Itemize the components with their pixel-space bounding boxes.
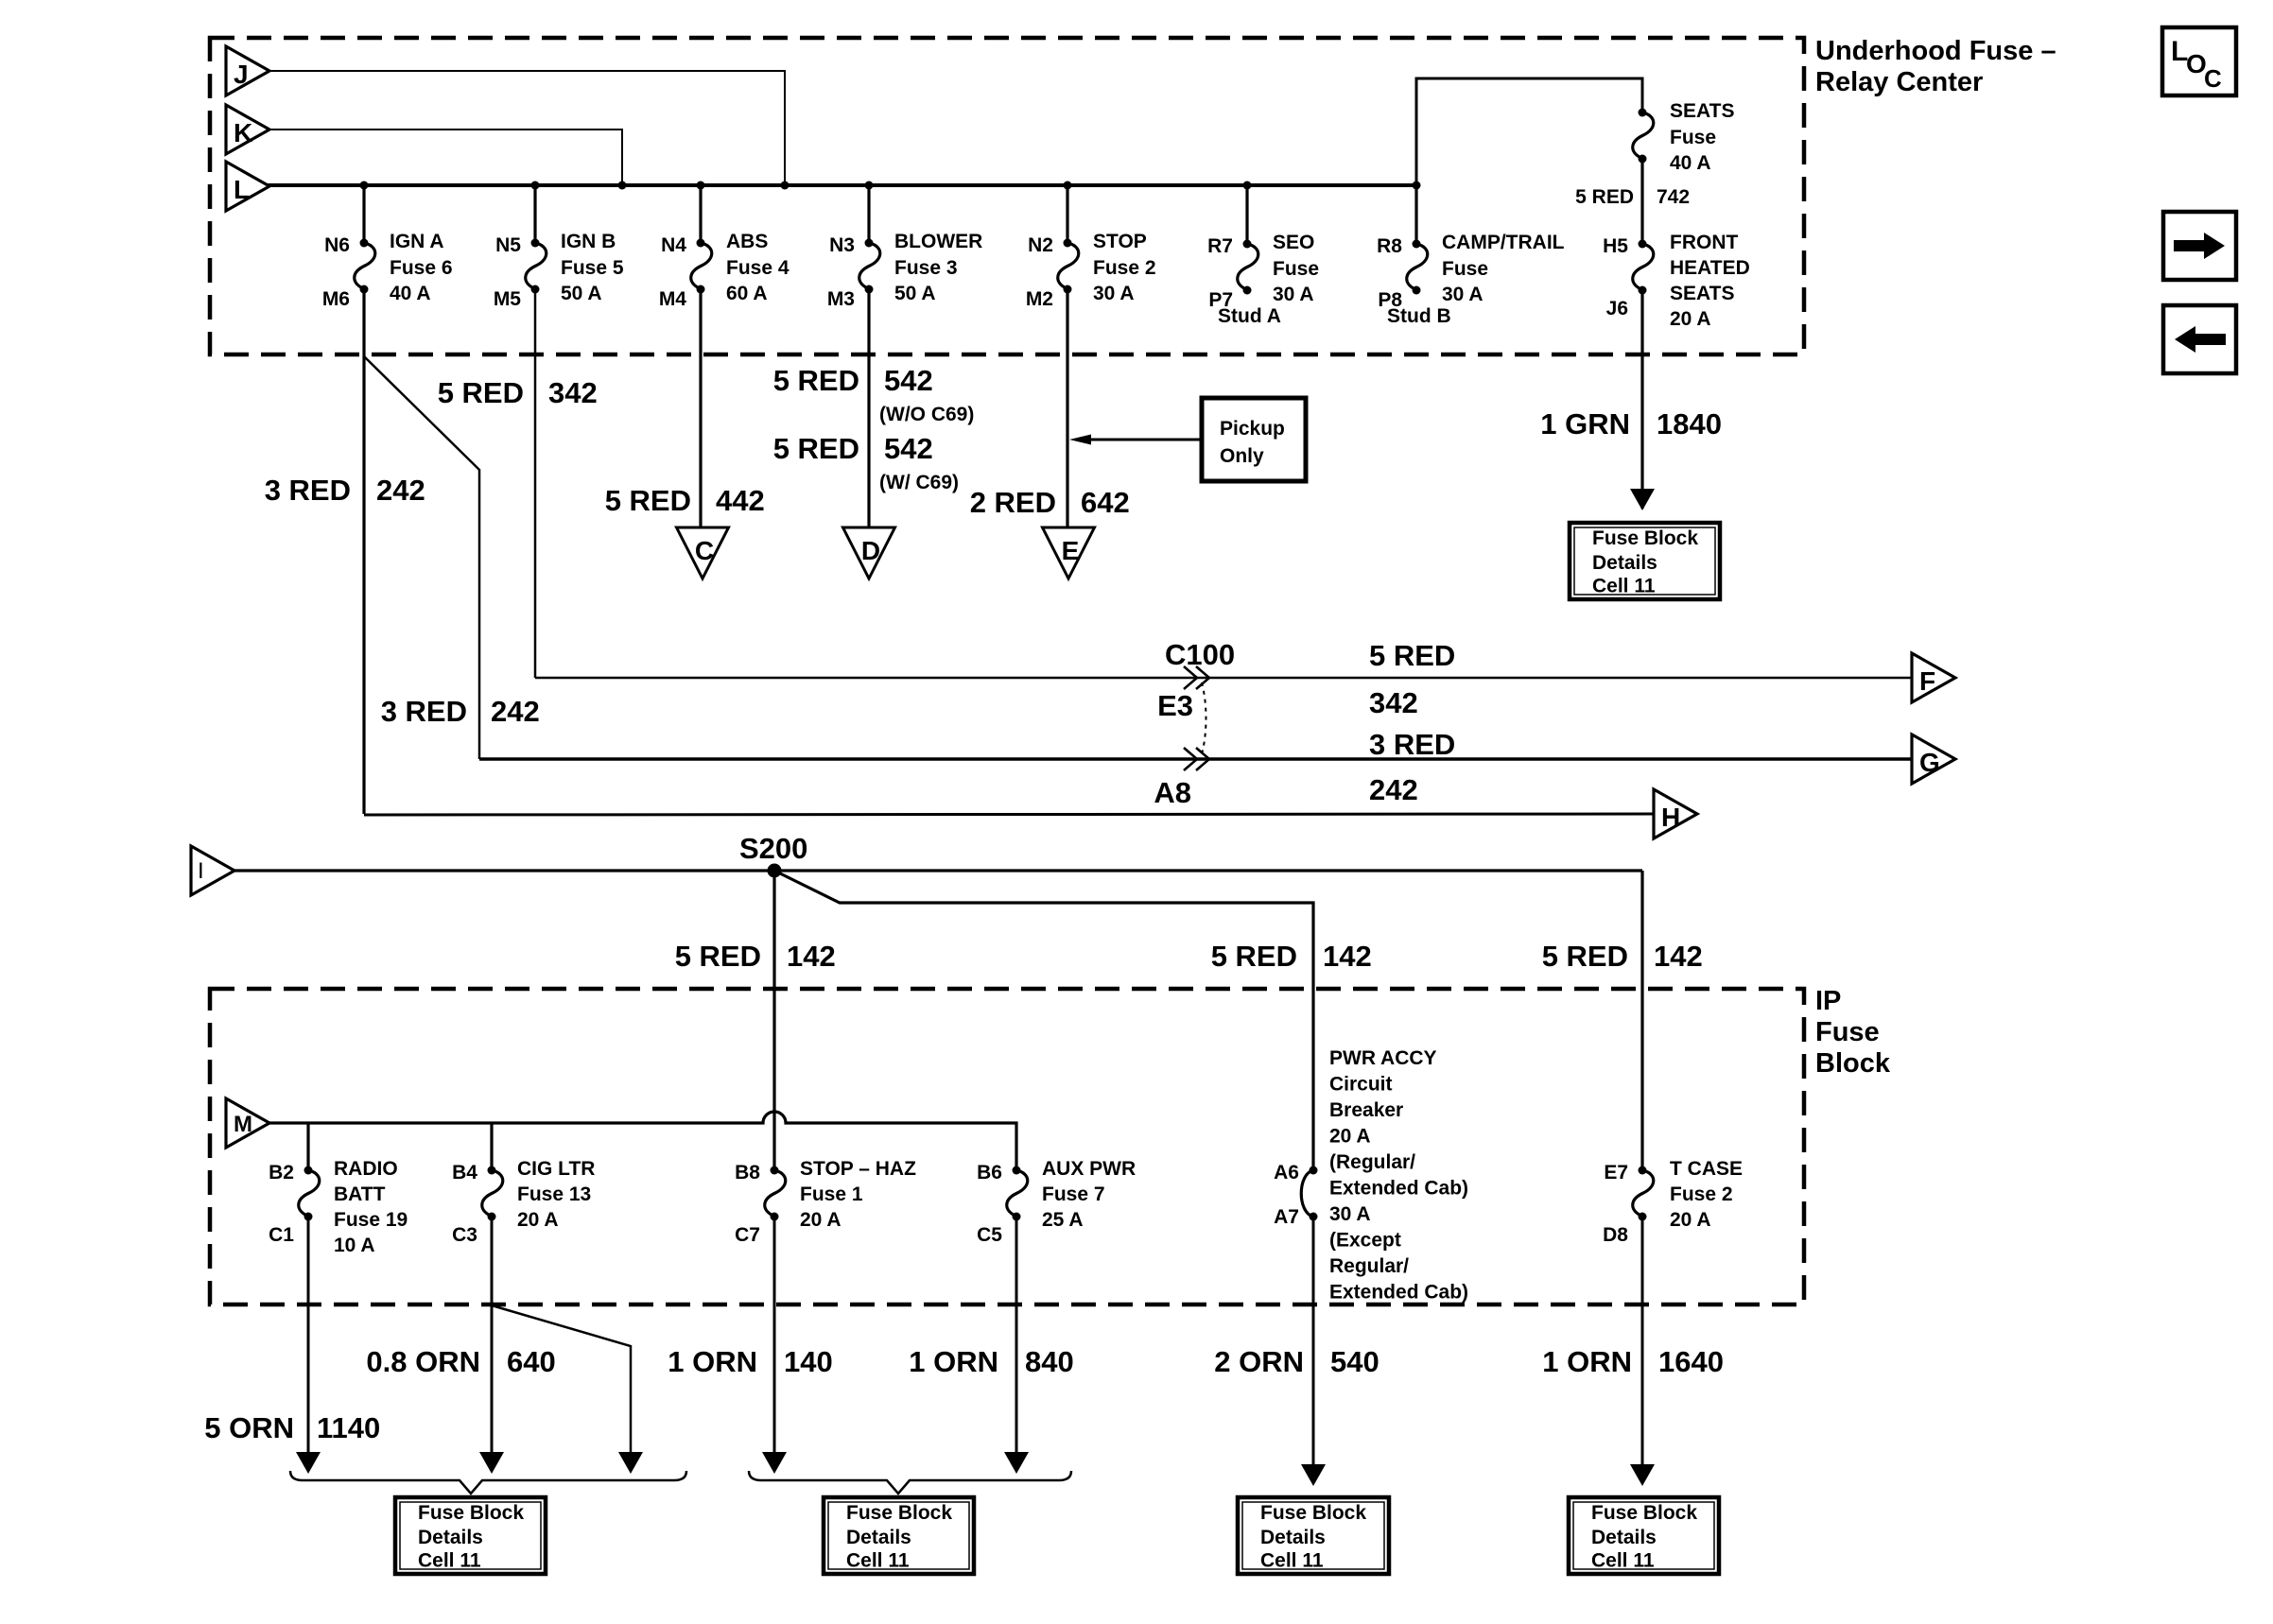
bus junction dots [360, 181, 369, 190]
Underhood Fuse-Relay Center dashed box [210, 38, 1804, 354]
svg-text:STOP: STOP [1093, 231, 1147, 252]
IP Fuse Block dashed box [210, 989, 1804, 1304]
wire H row [364, 814, 1654, 815]
svg-text:D: D [861, 536, 880, 565]
connector triangle K [226, 105, 269, 154]
svg-text:1 ORN: 1 ORN [1542, 1345, 1632, 1378]
fuse STOP-HAZ Fuse 1 [771, 1166, 779, 1175]
wire C7 down [773, 1217, 776, 1454]
svg-text:Fuse 7: Fuse 7 [1042, 1183, 1105, 1205]
svg-text:Only: Only [1220, 445, 1264, 467]
svg-text:5 RED: 5 RED [1211, 940, 1297, 973]
svg-text:C: C [695, 536, 714, 565]
svg-text:142: 142 [787, 940, 836, 973]
wire bus to B4 [490, 1123, 493, 1170]
svg-text:642: 642 [1081, 486, 1130, 519]
svg-text:M4: M4 [659, 288, 686, 310]
wire bus to N2 [1066, 185, 1068, 243]
svg-text:(Except: (Except [1329, 1230, 1401, 1252]
bus wire from M with hop over S200 wire [268, 1112, 1016, 1170]
svg-text:Circuit: Circuit [1329, 1074, 1393, 1096]
svg-text:1840: 1840 [1657, 407, 1722, 441]
svg-text:A8: A8 [1154, 776, 1191, 809]
svg-text:5 RED: 5 RED [675, 940, 761, 973]
svg-text:2 ORN: 2 ORN [1214, 1345, 1304, 1378]
left arrow icon box [2163, 305, 2236, 373]
svg-text:Fuse 2: Fuse 2 [1670, 1183, 1733, 1205]
wire D8 down [1641, 1217, 1644, 1466]
wire bus to B2 [306, 1123, 309, 1170]
svg-text:40 A: 40 A [1670, 152, 1711, 174]
svg-text:STOP – HAZ: STOP – HAZ [800, 1158, 916, 1180]
svg-text:PWR ACCY: PWR ACCY [1329, 1047, 1437, 1069]
svg-text:Fuse: Fuse [1670, 127, 1716, 148]
Fuse Block Details box 2 [824, 1497, 974, 1574]
svg-text:Fuse 4: Fuse 4 [726, 257, 789, 279]
svg-text:M6: M6 [322, 288, 350, 310]
svg-text:CIG LTR: CIG LTR [517, 1158, 595, 1180]
svg-text:Fuse Block: Fuse Block [1591, 1502, 1697, 1524]
wire S200 diagonal branch to PWR ACCY [774, 871, 1313, 1170]
svg-text:10 A: 10 A [334, 1235, 375, 1256]
svg-text:H: H [1661, 803, 1680, 832]
connector triangle H [1654, 789, 1697, 838]
svg-text:242: 242 [376, 474, 425, 507]
wire right branch down to E7 [1640, 871, 1643, 1170]
wire bus to R7 [1245, 185, 1248, 244]
svg-text:1140: 1140 [317, 1411, 380, 1444]
svg-text:L: L [234, 175, 250, 204]
svg-text:C3: C3 [452, 1224, 477, 1246]
Pickup Only box [1202, 398, 1306, 481]
svg-text:A7: A7 [1274, 1206, 1299, 1228]
svg-text:20 A: 20 A [1329, 1126, 1371, 1148]
svg-text:J: J [234, 60, 249, 89]
svg-text:Cell 11: Cell 11 [1260, 1550, 1324, 1572]
svg-text:FRONT: FRONT [1670, 232, 1738, 253]
svg-text:Cell 11: Cell 11 [1592, 576, 1656, 597]
svg-text:Extended Cab): Extended Cab) [1329, 1178, 1468, 1200]
svg-text:142: 142 [1654, 940, 1703, 973]
svg-text:Fuse: Fuse [1815, 1017, 1880, 1047]
Fuse Block Details box 1 [395, 1497, 546, 1574]
svg-text:Cell 11: Cell 11 [1591, 1550, 1655, 1572]
svg-text:30 A: 30 A [1093, 283, 1135, 304]
svg-text:R8: R8 [1377, 235, 1402, 257]
svg-text:Fuse 6: Fuse 6 [390, 257, 453, 279]
svg-text:Details: Details [1260, 1527, 1326, 1548]
svg-text:IGN A: IGN A [390, 231, 444, 252]
fuse SEATS 40A [1639, 109, 1647, 117]
svg-text:242: 242 [491, 695, 540, 728]
svg-text:Fuse 1: Fuse 1 [800, 1183, 863, 1205]
connector triangle C [677, 527, 729, 579]
svg-text:SEATS: SEATS [1670, 100, 1734, 122]
fuse RADIO BATT Fuse 19 [304, 1166, 313, 1175]
svg-text:3 RED: 3 RED [1369, 728, 1455, 761]
fuse SEO 30A [1243, 240, 1252, 249]
Fuse Block Details box 4 [1569, 1497, 1719, 1574]
svg-text:B8: B8 [735, 1162, 760, 1183]
svg-text:M: M [234, 1112, 252, 1137]
wire bus to N5 [533, 185, 536, 243]
svg-text:50 A: 50 A [894, 283, 936, 304]
svg-text:A6: A6 [1274, 1162, 1299, 1183]
svg-text:E3: E3 [1157, 689, 1193, 722]
svg-text:Fuse 5: Fuse 5 [561, 257, 624, 279]
svg-text:5 RED: 5 RED [1542, 940, 1628, 973]
svg-text:C100: C100 [1165, 638, 1235, 671]
svg-text:442: 442 [716, 484, 765, 517]
svg-text:Details: Details [418, 1527, 483, 1548]
svg-text:Cell 11: Cell 11 [418, 1550, 481, 1572]
connector triangle M [226, 1098, 269, 1148]
svg-text:S200: S200 [739, 832, 807, 865]
connector triangle L [226, 162, 269, 211]
svg-text:Fuse Block: Fuse Block [1592, 527, 1698, 549]
fuse IGN A Fuse 6 [360, 239, 369, 248]
svg-text:Extended Cab): Extended Cab) [1329, 1282, 1468, 1304]
svg-text:M5: M5 [494, 288, 521, 310]
wire F row [535, 677, 1912, 680]
svg-text:J6: J6 [1606, 298, 1628, 320]
svg-text:20 A: 20 A [1670, 308, 1711, 330]
svg-text:742: 742 [1657, 186, 1690, 208]
svg-text:Details: Details [1592, 552, 1657, 574]
svg-text:1 ORN: 1 ORN [909, 1345, 998, 1378]
svg-text:SEATS: SEATS [1670, 283, 1734, 304]
svg-text:Fuse Block: Fuse Block [418, 1502, 524, 1524]
svg-text:30 A: 30 A [1273, 284, 1314, 305]
wire from K [268, 130, 622, 185]
connector triangle J [226, 46, 269, 95]
brace left group [290, 1471, 686, 1494]
svg-text:Cell 11: Cell 11 [846, 1550, 910, 1572]
svg-text:E7: E7 [1604, 1162, 1628, 1183]
svg-text:Fuse 3: Fuse 3 [894, 257, 958, 279]
svg-text:342: 342 [1369, 686, 1418, 719]
svg-text:B2: B2 [269, 1162, 294, 1183]
svg-text:HEATED: HEATED [1670, 257, 1750, 279]
wire G row [479, 757, 1912, 761]
svg-text:Regular/: Regular/ [1329, 1255, 1409, 1277]
wire J6 down 1 GRN 1840 [1640, 289, 1643, 509]
svg-text:T CASE: T CASE [1670, 1158, 1743, 1180]
svg-text:30 A: 30 A [1442, 284, 1484, 305]
wire M5 down to F row [534, 289, 537, 678]
svg-text:142: 142 [1323, 940, 1372, 973]
svg-text:5 RED: 5 RED [1369, 639, 1455, 672]
svg-text:5 ORN: 5 ORN [204, 1411, 294, 1444]
wire A7 down [1312, 1217, 1315, 1466]
svg-text:5 RED: 5 RED [773, 432, 859, 465]
svg-text:Pickup: Pickup [1220, 418, 1285, 440]
wire bus to N4 [699, 185, 702, 243]
LOC icon box [2162, 27, 2236, 95]
svg-text:3 RED: 3 RED [265, 474, 351, 507]
wire bus to R8 [1414, 185, 1417, 244]
svg-text:Fuse Block: Fuse Block [846, 1502, 952, 1524]
svg-text:B4: B4 [452, 1162, 477, 1183]
svg-text:5 RED: 5 RED [773, 364, 859, 397]
svg-text:E: E [1062, 536, 1080, 565]
svg-text:Fuse 2: Fuse 2 [1093, 257, 1156, 279]
svg-text:20 A: 20 A [1670, 1209, 1711, 1231]
svg-text:1 ORN: 1 ORN [668, 1345, 757, 1378]
svg-text:542: 542 [884, 364, 933, 397]
svg-text:Fuse 13: Fuse 13 [517, 1183, 591, 1205]
svg-text:140: 140 [784, 1345, 833, 1378]
svg-text:RADIO: RADIO [334, 1158, 398, 1180]
connector triangle G [1912, 734, 1955, 784]
svg-text:SEO: SEO [1273, 232, 1314, 253]
svg-text:I: I [198, 858, 204, 884]
svg-text:N6: N6 [324, 234, 350, 256]
svg-text:N2: N2 [1028, 234, 1053, 256]
connector triangle E [1043, 527, 1095, 579]
connector triangle D [843, 527, 895, 579]
svg-text:C7: C7 [735, 1224, 760, 1246]
wire 5 RED 742 [1640, 159, 1643, 244]
svg-text:IGN B: IGN B [561, 231, 616, 252]
svg-text:5 RED: 5 RED [605, 484, 691, 517]
brace middle group [749, 1471, 1071, 1494]
svg-text:25 A: 25 A [1042, 1209, 1084, 1231]
svg-text:640: 640 [507, 1345, 556, 1378]
svg-text:540: 540 [1330, 1345, 1379, 1378]
svg-text:840: 840 [1025, 1345, 1074, 1378]
svg-text:Fuse: Fuse [1442, 258, 1488, 280]
connector triangle I [191, 846, 234, 895]
svg-text:60 A: 60 A [726, 283, 768, 304]
fuse FRONT HEATED SEATS 20A [1639, 240, 1647, 249]
svg-text:G: G [1919, 748, 1940, 777]
svg-text:242: 242 [1369, 773, 1418, 806]
svg-text:IP: IP [1815, 986, 1841, 1016]
svg-text:Fuse 19: Fuse 19 [334, 1209, 408, 1231]
svg-text:Fuse Block: Fuse Block [1260, 1502, 1366, 1524]
svg-text:N4: N4 [661, 234, 686, 256]
wire branch diagonal off C3 [492, 1305, 631, 1454]
fuse ABS Fuse 4 [697, 239, 705, 248]
svg-text:Block: Block [1815, 1048, 1891, 1079]
fuse IGN B Fuse 5 [531, 239, 540, 248]
fuse STOP Fuse 2 [1064, 239, 1072, 248]
svg-text:5 RED: 5 RED [438, 376, 524, 409]
svg-text:20 A: 20 A [517, 1209, 559, 1231]
svg-text:30 A: 30 A [1329, 1203, 1371, 1225]
svg-text:Stud A: Stud A [1218, 305, 1281, 327]
splice S200 [768, 864, 782, 878]
Fuse Block Details box top right [1570, 523, 1720, 599]
svg-text:Details: Details [846, 1527, 911, 1548]
svg-text:N5: N5 [495, 234, 521, 256]
svg-text:50 A: 50 A [561, 283, 602, 304]
wire I row to S200 and right [233, 869, 1642, 872]
svg-text:K: K [234, 118, 252, 147]
wire branch diagonal off M6 [364, 356, 479, 759]
svg-text:ABS: ABS [726, 231, 768, 252]
svg-text:B6: B6 [977, 1162, 1002, 1183]
svg-text:1 GRN: 1 GRN [1540, 407, 1630, 441]
wire S200 down to B8 [772, 871, 775, 1170]
svg-text:0.8 ORN: 0.8 ORN [366, 1345, 480, 1378]
svg-text:Underhood Fuse –: Underhood Fuse – [1815, 36, 2056, 66]
wire from J [268, 71, 785, 185]
wire bus top loop to SEATS fuse [1416, 78, 1642, 185]
svg-text:Relay Center: Relay Center [1815, 67, 1983, 97]
svg-text:(W/ C69): (W/ C69) [879, 472, 959, 493]
circuit breaker PWR ACCY [1310, 1166, 1318, 1175]
svg-text:(W/O C69): (W/O C69) [879, 404, 974, 425]
svg-text:R7: R7 [1207, 235, 1233, 257]
wire M2 down to E triangle [1066, 289, 1068, 527]
wire C1 down [307, 1217, 310, 1454]
svg-text:Details: Details [1591, 1527, 1657, 1548]
svg-text:H5: H5 [1603, 235, 1628, 257]
svg-text:C: C [2204, 64, 2222, 93]
svg-text:3 RED: 3 RED [381, 695, 467, 728]
wire bus to N6 [362, 185, 365, 243]
svg-text:AUX PWR: AUX PWR [1042, 1158, 1136, 1180]
fuse AUX PWR Fuse 7 [1013, 1166, 1021, 1175]
Fuse Block Details box 3 [1238, 1497, 1389, 1574]
fuse T CASE Fuse 2 [1639, 1166, 1647, 1175]
svg-text:BLOWER: BLOWER [894, 231, 982, 252]
svg-text:342: 342 [548, 376, 598, 409]
fuse BLOWER Fuse 3 [865, 239, 874, 248]
svg-text:(Regular/: (Regular/ [1329, 1151, 1415, 1173]
wire M4 down to C triangle [699, 289, 702, 527]
svg-text:20 A: 20 A [800, 1209, 842, 1231]
svg-text:BATT: BATT [334, 1183, 386, 1205]
svg-text:M3: M3 [827, 288, 855, 310]
svg-text:5 RED: 5 RED [1575, 186, 1634, 208]
wire C3 down [491, 1217, 494, 1454]
fuse CIG LTR Fuse 13 [488, 1166, 496, 1175]
svg-text:40 A: 40 A [390, 283, 431, 304]
wire C5 down [1015, 1217, 1018, 1454]
wire bus to N3 [867, 185, 870, 243]
svg-text:542: 542 [884, 432, 933, 465]
svg-text:C1: C1 [269, 1224, 294, 1246]
svg-text:N3: N3 [829, 234, 855, 256]
svg-text:1640: 1640 [1658, 1345, 1724, 1378]
right arrow icon box [2163, 212, 2236, 280]
svg-text:CAMP/TRAIL: CAMP/TRAIL [1442, 232, 1565, 253]
svg-text:M2: M2 [1026, 288, 1053, 310]
bus wire from L [268, 183, 1416, 187]
fuse CAMP/TRAIL 30A [1413, 240, 1421, 249]
connector triangle F [1912, 653, 1955, 702]
wire M3 down to D triangle [867, 289, 870, 527]
svg-text:D8: D8 [1603, 1224, 1628, 1246]
svg-text:C5: C5 [977, 1224, 1002, 1246]
svg-text:F: F [1919, 666, 1935, 696]
svg-text:2 RED: 2 RED [970, 486, 1056, 519]
arrow Pickup to STOP wire [1089, 439, 1202, 441]
svg-text:Stud B: Stud B [1387, 305, 1451, 327]
wire M6 down to H row [362, 289, 365, 814]
svg-text:Fuse: Fuse [1273, 258, 1319, 280]
svg-text:Breaker: Breaker [1329, 1099, 1403, 1121]
